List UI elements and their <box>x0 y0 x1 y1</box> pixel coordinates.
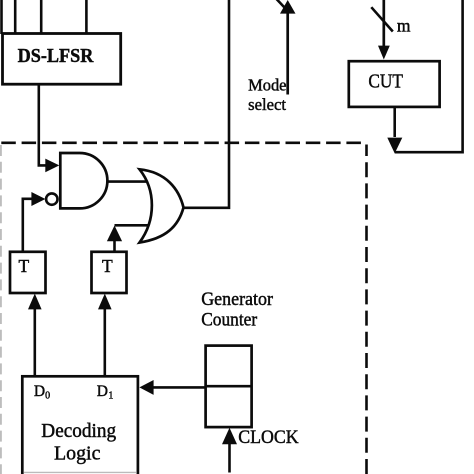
arrowhead into CUT <box>378 46 390 60</box>
block: DS-LFSR <box>3 34 121 85</box>
wire: to response path, right and up to top edge <box>395 0 463 152</box>
svg-text:CUT: CUT <box>368 70 403 92</box>
svg-text:Decoding: Decoding <box>41 421 116 442</box>
svg-text:select: select <box>248 95 286 114</box>
block: Generator Counter <box>206 346 252 428</box>
wire: Decoding Logic D0 to T1 <box>33 308 36 376</box>
arrowhead Mode select <box>280 0 296 14</box>
gate G2: OR gate <box>140 169 184 242</box>
wire: DS-LFSR inputs (4 stubs at top) <box>2 0 87 34</box>
arrowhead T2 to OR <box>107 226 122 242</box>
wire: OR lower input stub <box>115 224 153 227</box>
wire: T1 output up to inverted input of NAND <box>23 199 32 252</box>
svg-text:Counter: Counter <box>201 310 257 330</box>
svg-text:DS-LFSR: DS-LFSR <box>18 46 95 67</box>
svg-text:T: T <box>19 256 30 276</box>
arrowhead CUT output <box>387 138 402 154</box>
arrowhead into T2 <box>98 294 112 310</box>
svg-text:D: D <box>34 383 45 400</box>
wire: T2 output up to OR gate lower input <box>113 240 116 252</box>
svg-text:Logic: Logic <box>54 443 101 464</box>
T flip-flop T2 <box>92 252 127 293</box>
svg-text:Generator: Generator <box>201 290 273 310</box>
svg-text:CLOCK: CLOCK <box>238 428 299 448</box>
T flip-flop T1 <box>10 252 46 293</box>
arrowhead into Decoding Logic <box>139 380 153 395</box>
bus slash m <box>371 7 393 31</box>
arrowhead into NAND top input <box>45 159 59 173</box>
arrowhead CLOCK <box>222 428 237 445</box>
svg-text:Mode: Mode <box>248 75 286 94</box>
arrowhead into T1 <box>28 294 42 310</box>
svg-text:m: m <box>397 16 411 36</box>
arrowhead into inverter bubble <box>31 192 45 206</box>
gate G1: AND with inverted input (NAND-style shape) <box>60 153 107 208</box>
wire: OR output right and up to top edge <box>182 0 229 208</box>
svg-text:T: T <box>102 256 113 276</box>
svg-text:0: 0 <box>45 391 50 402</box>
block: CUT <box>349 61 440 107</box>
wire: CLOCK into Generator Counter <box>228 443 231 473</box>
dashed BIST boundary box <box>1 143 367 474</box>
svg-text:1: 1 <box>108 391 113 402</box>
wire: CUT output down <box>393 107 396 137</box>
block: Decoding Logic <box>22 376 138 474</box>
bus slash on Mode select <box>277 0 285 8</box>
wire: DS-LFSR output down to NAND gate top input <box>39 84 47 165</box>
wire: Mode select (up arrow) <box>286 12 289 95</box>
wire: NAND output to OR input <box>107 180 152 183</box>
divider of Generator Counter <box>206 385 252 388</box>
wire: input bus into CUT from top <box>382 0 385 47</box>
inverter bubble on G1 lower input <box>46 193 57 204</box>
svg-text:D: D <box>97 383 108 400</box>
wire: Generator Counter to Decoding Logic <box>153 386 206 389</box>
wire: Decoding Logic D1 to T2 <box>104 308 107 376</box>
